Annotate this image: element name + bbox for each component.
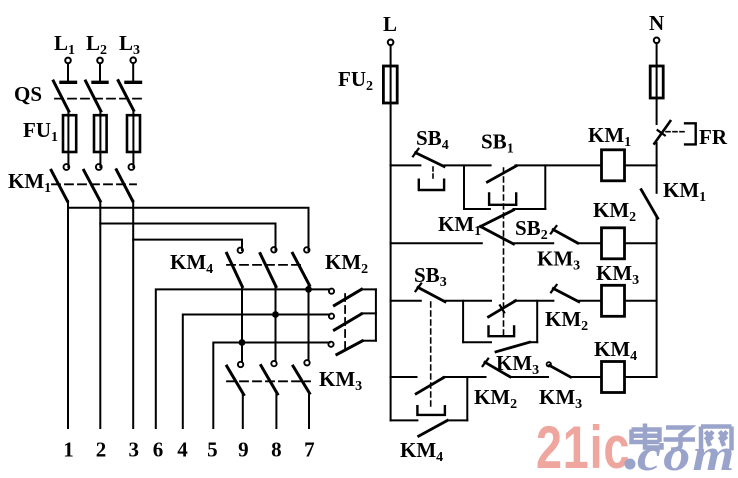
rung2 wire right (578, 242, 602, 244)
wire column 8 lower (275, 286, 277, 361)
contactor KM1 main blade pole 2 (84, 170, 100, 201)
switch QS fixed contact pole 1 (61, 81, 76, 84)
rung4 wire coil to rail (625, 376, 657, 378)
rung3 wire middle1 (445, 300, 491, 302)
rung4 wire middle1 (444, 376, 486, 378)
terminal N (654, 38, 660, 44)
wire branch phase1 to column 7 (68, 208, 309, 250)
junction col9 bus3 (239, 339, 246, 346)
contactor KM2 blade top (334, 289, 361, 305)
contactor KM3 blade col 9 (227, 366, 244, 395)
wire QS to FU1 pole 1 (67, 111, 69, 116)
svg-text:QS: QS (14, 82, 42, 106)
contactor KM2 blade bottom (337, 341, 362, 355)
contactor KM3 linkage dashed (227, 380, 310, 382)
rung1 wire left (391, 164, 421, 166)
contactor KM2 fixed contact bottom (328, 342, 333, 347)
contactor KM4 fixed contact col 9 (238, 248, 243, 253)
button SB3 bracket bottom (417, 406, 445, 415)
rung2 wire left (391, 242, 482, 244)
terminal L2 (97, 58, 103, 64)
switch QS blade pole 2 (86, 81, 101, 111)
contactor KM3 fixed contact col 8 (271, 361, 276, 366)
relay FR tick (658, 130, 665, 135)
watermark chinese zi (664, 428, 696, 450)
button SB1 blade (487, 166, 516, 182)
rung4 wire left (391, 376, 417, 378)
fuse FU1 pole 3 wire through (132, 116, 134, 167)
button SB4 blade (416, 153, 445, 167)
button SB1 long dashed actuator (503, 168, 505, 336)
contact KM1 aux blade upper (481, 210, 514, 227)
wire column 9 to terminal (242, 394, 244, 428)
fuse FU1 pole 1 body (63, 115, 76, 152)
wire N rail upper (656, 98, 658, 124)
contact KM1 no blade right rail (641, 190, 658, 219)
rung3 wire coil to rail (625, 300, 657, 302)
wire bus line to 6 (156, 289, 330, 428)
rung4 wire right (571, 376, 602, 378)
contact KM2 nc blade rung3 (553, 289, 578, 302)
button SB3 long dashed actuator (430, 302, 432, 406)
watermark com (637, 429, 737, 478)
fuse FU on N body (650, 66, 663, 98)
contact KM1 aux blade lower (481, 227, 514, 245)
contact KM2 nc blade rung4 (485, 362, 510, 377)
contactor KM1 main fixed contact pole 1 (64, 164, 70, 170)
svg-text:7: 7 (304, 438, 315, 462)
wire KM2 middle tip (362, 312, 376, 314)
wire L to FU2 (390, 45, 392, 66)
relay FR actuator bracket (685, 123, 696, 144)
wire N rail to rung1 (656, 143, 658, 165)
wire N to fuse (656, 43, 658, 66)
selfhold KM4 bottom wire right (447, 419, 467, 421)
switch QS blade pole 1 (53, 81, 68, 111)
selfhold branch left vertical (463, 165, 465, 209)
watermark dot (625, 459, 636, 470)
button SB4 tick (413, 149, 419, 157)
contact KM3 no bypass blade (496, 342, 530, 352)
contactor KM2 linkage dashed (344, 294, 346, 353)
contactor KM2 blade middle (334, 314, 361, 330)
svg-text:L: L (383, 12, 397, 36)
coil KM2 (602, 228, 625, 259)
button SB3 nc blade (418, 287, 445, 301)
selfhold branch bottom left (464, 208, 490, 210)
wire phase3 column (132, 201, 134, 428)
relay FR blade (654, 121, 670, 144)
relay FR dashed link (666, 131, 685, 133)
wire KM2 bottom tip (362, 340, 376, 342)
button SB3 tick (416, 284, 422, 292)
fuse FU2 body (383, 66, 397, 103)
contactor KM2 fixed contact middle (329, 314, 334, 319)
rung2 wire middle (514, 242, 554, 244)
contactor KM1 main fixed contact pole 3 (129, 164, 135, 170)
coil KM4 (602, 362, 625, 393)
wire column 8 to terminal (275, 394, 277, 428)
svg-text:4: 4 (177, 438, 188, 462)
bypass box bottom right rung3 (530, 341, 538, 343)
contactor KM1 linkage dashed (52, 183, 136, 185)
contactor KM4 fixed contact col 8 (271, 247, 276, 252)
terminal L (388, 40, 394, 46)
contactor KM2 fixed contact top (329, 289, 334, 294)
rung3 wire middle2 (515, 300, 554, 302)
fuse FU1 pole 2 body (94, 115, 107, 152)
svg-text:8: 8 (271, 438, 282, 462)
watermark 21ic (536, 414, 630, 478)
contactor KM4 fixed contact col 7 (304, 247, 309, 252)
svg-text:3: 3 (128, 438, 139, 462)
selfhold KM4 bottom wire left (391, 419, 418, 421)
wire column 7 lower (308, 285, 310, 360)
svg-text:6: 6 (153, 438, 164, 462)
button SB4 bracket (419, 180, 444, 190)
svg-text:N: N (649, 11, 664, 35)
contact KM3 nc blade rung2 (553, 230, 578, 244)
contactor KM4 linkage dashed (227, 264, 305, 266)
contactor KM1 main fixed contact pole 2 (96, 164, 102, 170)
watermark chinese dian (632, 424, 732, 451)
selfhold branch right vertical (544, 165, 546, 209)
contactor KM1 main blade pole 3 (116, 170, 132, 201)
switch QS blade pole 3 (118, 81, 133, 111)
switch QS linkage dashed (55, 98, 146, 100)
rung3 wire left (391, 300, 421, 302)
wire bus line to 4 (183, 315, 330, 429)
rung1 wire right (516, 164, 602, 166)
fuse FU2 wire through (390, 66, 392, 103)
contactor KM3 fixed contact col 9 (238, 362, 243, 367)
wire L2 to QS (99, 63, 101, 81)
contact KM3 nc tick rung2 (551, 226, 557, 233)
wire KM2 top tip (362, 288, 376, 290)
switch QS fixed contact pole 3 (126, 81, 141, 84)
rung4 wire middle2 (510, 376, 548, 378)
button SB1 nc blade rung3 (489, 301, 516, 317)
wire column 9 lower (241, 286, 243, 362)
svg-text:1: 1 (63, 438, 74, 462)
button SB1 nc tick rung3 (500, 305, 504, 312)
contactor KM3 blade col 8 (261, 366, 278, 394)
fuse FU1 pole 1 wire through (67, 116, 69, 167)
coil KM3 (602, 285, 625, 316)
bypass box left vertical rung3 (462, 301, 464, 342)
svg-text:9: 9 (238, 438, 249, 462)
rung2 wire coil to rail (625, 242, 657, 244)
wire column 7 to terminal (308, 393, 310, 428)
contactor KM3 fixed contact col 7 (304, 360, 309, 365)
button SB1 nc bracket rung3 (489, 327, 515, 337)
fuse FU1 pole 3 body (127, 115, 140, 152)
wire QS to FU1 pole 3 (132, 110, 134, 116)
contactor KM3 blade col 7 (293, 366, 309, 393)
button SB4 dashed actuator (432, 167, 434, 180)
wire right rail rung1 to contact (656, 165, 658, 192)
junction col8 bus2 (272, 311, 279, 318)
contact KM3 no pivot rung4 (547, 362, 551, 366)
selfhold KM4 right vertical (466, 377, 468, 420)
wire KM2 shorting bar (375, 289, 377, 340)
contactor KM1 main blade pole 1 (51, 170, 67, 201)
rung1 wire middle (444, 164, 490, 166)
coil KM1 (602, 150, 625, 181)
svg-text:21ic: 21ic (536, 414, 630, 473)
contact KM2 nc tick rung4 (483, 359, 489, 366)
svg-text:FR: FR (699, 125, 728, 149)
wire phase1 column (67, 201, 69, 428)
wire branch phase2 to column 8 (100, 224, 275, 251)
bypass box bottom left rung3 (463, 341, 491, 343)
wire left rail (390, 103, 392, 420)
button SB1 bracket (489, 193, 516, 204)
wire L3 to QS (132, 63, 134, 81)
button SB3 no blade rung4 (416, 378, 443, 394)
rung1 wire coil to rail (625, 164, 657, 166)
svg-text:5: 5 (207, 438, 218, 462)
wire QS to FU1 pole 2 (99, 111, 101, 116)
junction col7 bus1 (305, 286, 312, 293)
wire phase2 column (99, 201, 101, 428)
bypass box right vertical rung3 (536, 301, 538, 342)
wire L1 to QS (67, 63, 69, 81)
terminal L3 (130, 57, 136, 63)
contactor KM4 blade col 9 (227, 253, 243, 286)
contact KM3 no blade rung4 (550, 366, 571, 378)
watermark chinese wang (701, 427, 732, 451)
contact KM4 no blade (419, 420, 448, 436)
switch QS fixed contact pole 2 (93, 81, 107, 84)
svg-text:2: 2 (96, 438, 107, 462)
wire branch phase3 to column 9 (133, 240, 242, 250)
fuse FU on N wire through (656, 66, 658, 98)
contact KM2 nc tick rung3 (551, 285, 557, 292)
fuse FU1 pole 2 wire through (99, 116, 101, 167)
contactor KM4 blade col 8 (260, 254, 276, 287)
selfhold branch bottom right (514, 208, 546, 210)
terminal L1 (65, 58, 71, 64)
contactor KM4 blade col 7 (293, 253, 310, 285)
wire right rail contact to bottom (656, 218, 658, 377)
wire bus line to 5 (213, 343, 329, 429)
rung3 wire right (579, 300, 602, 302)
